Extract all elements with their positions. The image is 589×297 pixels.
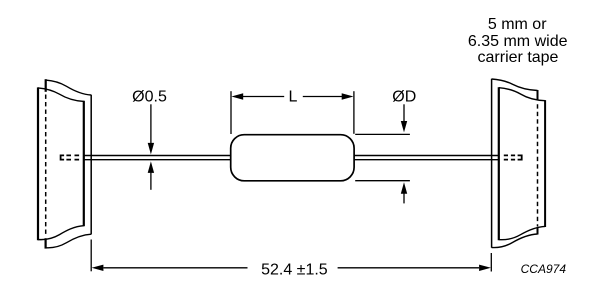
dimension label 52.4 plus-minus 1.5 bbox=[261, 261, 328, 278]
dimension label lead diameter 0.5 bbox=[132, 88, 167, 105]
left carrier tape back strip left edge solid bottom stub bbox=[44, 238, 46, 248]
body diameter down arrow bbox=[401, 104, 407, 132]
lead diameter down arrow bbox=[148, 104, 154, 154]
left tape hidden lead dashed lines bbox=[66, 155, 79, 159]
overall length left extension line bbox=[90, 240, 92, 272]
dimension L line with outward arrowheads bbox=[231, 93, 353, 99]
right carrier tape front strip top wavy edge bbox=[499, 88, 545, 101]
component body bbox=[231, 135, 354, 181]
right carrier tape back strip right edge hidden dashed part bbox=[537, 104, 539, 226]
right lead wire top line bbox=[354, 155, 499, 157]
right carrier tape front strip left edge bbox=[498, 87, 500, 240]
left tape hidden lead end cap bracket bbox=[61, 155, 65, 159]
dimension L left extension line bbox=[230, 91, 232, 134]
right carrier tape front strip bottom wavy edge bbox=[499, 226, 545, 239]
left carrier tape front strip right edge bbox=[83, 101, 85, 226]
left carrier tape front strip top wavy edge bbox=[38, 88, 84, 102]
figure reference code CCA974 bbox=[521, 262, 567, 276]
lead diameter up arrow bbox=[148, 161, 154, 189]
left carrier tape back strip bottom wavy edge bbox=[46, 234, 92, 248]
svg-text:carrier tape: carrier tape bbox=[478, 49, 559, 66]
svg-text:ØD: ØD bbox=[392, 88, 416, 105]
right carrier tape front strip right edge bbox=[544, 100, 546, 227]
right carrier tape back strip right edge solid bottom stub bbox=[537, 227, 539, 234]
body diameter up arrow bbox=[401, 182, 407, 203]
dimension label body diameter D bbox=[392, 88, 416, 105]
left carrier tape back strip right edge bbox=[90, 95, 92, 235]
left carrier tape front strip left edge bbox=[37, 87, 39, 240]
dimension L right extension line bbox=[353, 91, 355, 134]
svg-text:5 mm or: 5 mm or bbox=[488, 16, 547, 33]
annotation text 5 mm or 6.35 mm wide carrier tape bbox=[468, 16, 568, 66]
right carrier tape back strip top wavy edge bbox=[492, 79, 538, 91]
body diameter bottom extension line bbox=[355, 180, 410, 182]
left carrier tape back strip left edge hidden dashed part bbox=[45, 95, 47, 237]
svg-text:52.4 ±1.5: 52.4 ±1.5 bbox=[261, 261, 328, 278]
svg-text:6.35 mm wide: 6.35 mm wide bbox=[468, 33, 568, 50]
left lead wire top line bbox=[85, 155, 231, 157]
overall length dimension line with outward arrowheads bbox=[92, 265, 491, 271]
overall length right extension line bbox=[490, 253, 492, 272]
svg-text:CCA974: CCA974 bbox=[521, 262, 567, 276]
right lead wire bottom line bbox=[354, 159, 499, 161]
svg-text:L: L bbox=[289, 88, 298, 105]
svg-text:Ø0.5: Ø0.5 bbox=[132, 88, 167, 105]
dimension label L bbox=[289, 88, 298, 105]
body diameter top extension line bbox=[355, 133, 410, 135]
right carrier tape back strip bottom wavy edge bbox=[492, 234, 538, 248]
right carrier tape back strip left edge bbox=[491, 79, 493, 248]
left carrier tape front strip bottom wavy edge bbox=[38, 226, 84, 240]
right tape hidden lead end cap bracket bbox=[518, 155, 522, 159]
left lead wire bottom line bbox=[85, 159, 231, 161]
left carrier tape back strip left edge solid top stub bbox=[45, 79, 47, 92]
right tape hidden lead dashed lines bbox=[504, 155, 515, 159]
right carrier tape back strip right edge solid top stub bbox=[537, 90, 539, 100]
left carrier tape back strip top wavy edge bbox=[46, 80, 91, 95]
